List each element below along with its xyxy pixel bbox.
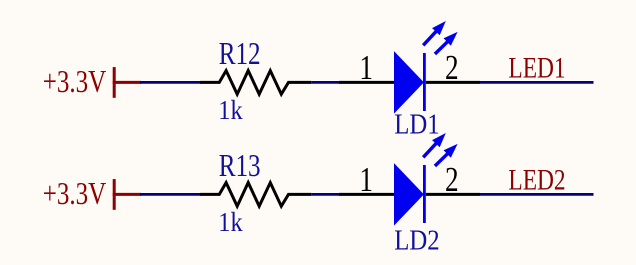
svg-text:LD2: LD2 xyxy=(394,224,439,256)
power port +3.3V (row 1) xyxy=(43,65,141,99)
light emission arrow b (LD1) xyxy=(435,40,449,54)
svg-text:+3.3V: +3.3V xyxy=(43,65,107,99)
svg-text:R12: R12 xyxy=(219,36,261,72)
resistor R12 xyxy=(200,71,311,95)
light emission arrow a (LD1) xyxy=(423,30,437,46)
wire: power to resistor R13 xyxy=(140,193,201,196)
wire: LED LD2 to net LED2 xyxy=(480,193,594,196)
svg-text:2: 2 xyxy=(445,160,459,199)
wire: resistor R13 to LED LD2 xyxy=(311,193,340,196)
wire: power to resistor R12 xyxy=(140,81,201,84)
pin 1 lead (LD1) xyxy=(339,81,395,84)
wire: LED LD1 to net LED1 xyxy=(480,81,594,84)
svg-text:LED1: LED1 xyxy=(508,51,565,84)
LED LD1 xyxy=(339,21,480,140)
pin 1 lead (LD2) xyxy=(339,193,395,196)
power port +3.3V (row 2) xyxy=(43,177,141,211)
cathode bar (LD1) xyxy=(423,53,426,111)
svg-text:+3.3V: +3.3V xyxy=(43,177,107,211)
pin 2 lead (LD2) xyxy=(426,193,480,196)
svg-text:LD1: LD1 xyxy=(394,108,439,140)
svg-text:1k: 1k xyxy=(218,207,242,237)
cathode bar (LD2) xyxy=(423,165,426,223)
svg-text:LED2: LED2 xyxy=(508,163,565,196)
LED LD2 xyxy=(339,133,480,256)
anode triangle (LD1) xyxy=(395,52,424,112)
wire: resistor R12 to LED LD1 xyxy=(311,81,340,84)
light emission arrow a (LD2) xyxy=(423,142,437,158)
svg-text:1k: 1k xyxy=(218,95,242,125)
svg-text:R13: R13 xyxy=(219,148,261,184)
resistor R13 xyxy=(200,183,311,207)
anode triangle (LD2) xyxy=(395,164,424,224)
pin 2 lead (LD1) xyxy=(426,81,480,84)
svg-text:2: 2 xyxy=(445,48,459,87)
light emission arrow b (LD2) xyxy=(435,152,449,166)
svg-text:1: 1 xyxy=(359,160,373,199)
svg-text:1: 1 xyxy=(359,48,373,87)
